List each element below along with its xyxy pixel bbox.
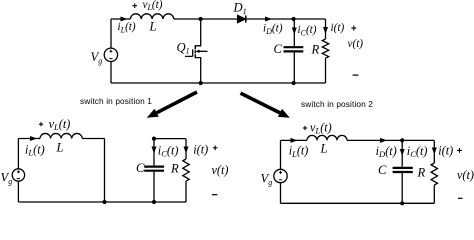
label + vL(t) (bl) <box>39 117 70 132</box>
wire right edge lower (top) <box>325 58 327 83</box>
svg-text:vL(t): vL(t) <box>310 120 332 135</box>
svg-text:L: L <box>56 141 64 155</box>
node: capacitor top junction dot (bl) <box>152 137 156 141</box>
svg-text:R: R <box>417 166 426 180</box>
svg-text:switch in position 2: switch in position 2 <box>301 99 373 109</box>
inductor L (top) <box>130 14 173 19</box>
svg-text:iC(t): iC(t) <box>298 24 317 37</box>
wire capacitor branch upper (top) <box>293 19 295 46</box>
svg-text:L: L <box>320 142 328 156</box>
svg-text:i(t): i(t) <box>193 142 208 156</box>
voltage source Vg (bl) <box>12 169 24 181</box>
current arrow iC (bl) <box>152 147 157 154</box>
current arrow iL (bl) <box>30 136 37 141</box>
label + v(t) - (br) <box>457 148 474 198</box>
wire left edge lower (bl) <box>17 181 19 202</box>
current arrow iD (top) <box>265 17 272 22</box>
svg-text:vL(t): vL(t) <box>49 117 71 132</box>
svg-text:iC(t): iC(t) <box>407 144 428 159</box>
current arrow i (bl) <box>184 147 189 154</box>
svg-text:v(t): v(t) <box>348 38 364 50</box>
resistor R (top) <box>322 39 328 58</box>
wire capacitor branch upper (br) <box>401 140 403 166</box>
svg-text:C: C <box>378 163 387 177</box>
diode D1 <box>238 15 246 22</box>
wire capacitor branch upper (bl) <box>153 139 155 166</box>
node: MOSFET source junction dot (top) <box>199 81 203 85</box>
current arrow iL (br) <box>291 138 298 143</box>
wire CR loop top rail (bl) <box>154 138 186 140</box>
voltage source Vg (top) <box>104 48 117 61</box>
inductor L (br) <box>307 135 347 140</box>
big arrow to position 2 circuit <box>241 93 290 118</box>
svg-text:R: R <box>311 43 320 57</box>
svg-text:v(t): v(t) <box>212 163 229 177</box>
svg-text:iL(t): iL(t) <box>289 144 309 159</box>
wire bottom rail (br) <box>281 202 435 204</box>
svg-text:L: L <box>149 20 157 34</box>
wire left edge upper (br) <box>280 140 282 169</box>
wire top rail right segment (bl) <box>82 138 104 140</box>
label + vL(t) (top) <box>132 0 162 12</box>
voltage source Vg (br) <box>274 169 287 182</box>
label + vL(t) (br) <box>303 120 332 135</box>
wire capacitor branch lower (top) <box>293 53 295 84</box>
wire top rail from diode to right corner <box>247 18 326 20</box>
resistor R (br) <box>431 163 437 185</box>
capacitor C (bl) <box>144 167 164 171</box>
current arrow iC (br) <box>400 149 405 156</box>
wire capacitor branch lower (bl) <box>153 172 155 202</box>
wire R branch lower (bl) <box>185 181 187 202</box>
svg-text:switch in position 1: switch in position 1 <box>80 96 152 106</box>
node: capacitor bottom junction dot (br) <box>400 201 404 205</box>
svg-text:iD(t): iD(t) <box>376 144 397 159</box>
svg-text:iC(t): iC(t) <box>158 144 179 159</box>
wire top rail from L to right corner (br) <box>347 139 434 141</box>
wire R branch upper (bl) <box>185 139 187 159</box>
current arrow i (top) <box>323 27 328 34</box>
wire right drop of source loop (bl) <box>104 139 106 203</box>
label + v(t) - (top) <box>348 26 364 76</box>
current arrow iL (top) <box>121 17 128 22</box>
wire left edge lower (top) <box>110 62 112 84</box>
wire left edge lower (br) <box>280 183 282 204</box>
current arrow i (br) <box>432 148 437 155</box>
capacitor C (top) <box>284 47 304 51</box>
wire right edge lower (br) <box>433 185 435 203</box>
node: source loop bottom junction dot (bl) <box>102 200 106 204</box>
svg-text:v(t): v(t) <box>457 168 474 182</box>
svg-text:i(t): i(t) <box>331 22 345 34</box>
svg-text:C: C <box>136 161 145 175</box>
wire top rail left segment <box>111 18 130 20</box>
svg-text:iL(t): iL(t) <box>25 143 45 158</box>
wire bottom rail (bl) <box>18 201 186 203</box>
wire left edge upper (top) <box>110 19 112 48</box>
resistor R (bl) <box>183 159 189 181</box>
node: capacitor top junction dot (br) <box>400 138 404 142</box>
transistor Q1 MOSFET <box>185 19 208 83</box>
wire top rail left segment (br) <box>281 139 308 141</box>
node B: capacitor top junction dot (top) <box>292 17 296 21</box>
wire right edge upper (top) <box>325 19 327 39</box>
svg-text:C: C <box>274 42 283 56</box>
current arrow iD (br) <box>380 138 387 143</box>
wire left edge upper (bl) <box>17 139 19 170</box>
big arrow to position 1 circuit <box>147 92 197 118</box>
svg-text:iL(t): iL(t) <box>118 21 136 34</box>
node A: drain junction dot (top) <box>199 17 203 21</box>
svg-text:i(t): i(t) <box>438 144 453 158</box>
capacitor C (br) <box>393 168 413 172</box>
svg-text:R: R <box>170 162 179 176</box>
node: capacitor bottom junction dot (bl) <box>152 200 156 204</box>
current arrow iC (top) <box>292 28 297 35</box>
wire top rail from L to diode <box>174 18 238 20</box>
wire right edge upper (br) <box>433 140 435 163</box>
inductor L (bl) <box>40 133 82 138</box>
label + v(t) - (bl) <box>212 146 229 195</box>
wire capacitor branch lower (br) <box>401 173 403 203</box>
wire bottom rail (top) <box>111 82 326 84</box>
svg-text:iD(t): iD(t) <box>263 23 283 36</box>
svg-text:vL(t): vL(t) <box>143 0 163 12</box>
wire top rail left segment (bl) <box>18 138 40 140</box>
node: capacitor bottom junction dot (top) <box>292 81 296 85</box>
